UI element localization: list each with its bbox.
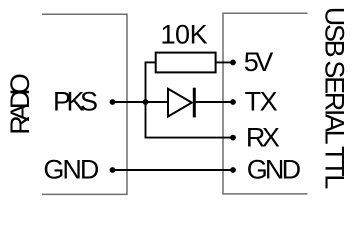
svg-text:GND: GND	[247, 154, 301, 184]
svg-text:RADIO: RADIO	[5, 73, 35, 135]
svg-text:10K: 10K	[160, 20, 207, 50]
svg-text:5V: 5V	[244, 47, 274, 77]
svg-text:GND: GND	[43, 154, 99, 184]
svg-text:USB SERIAL TTL: USB SERIAL TTL	[319, 7, 349, 190]
svg-text:RX: RX	[246, 122, 280, 152]
svg-text:TX: TX	[245, 87, 278, 117]
svg-text:PKS: PKS	[53, 87, 98, 117]
